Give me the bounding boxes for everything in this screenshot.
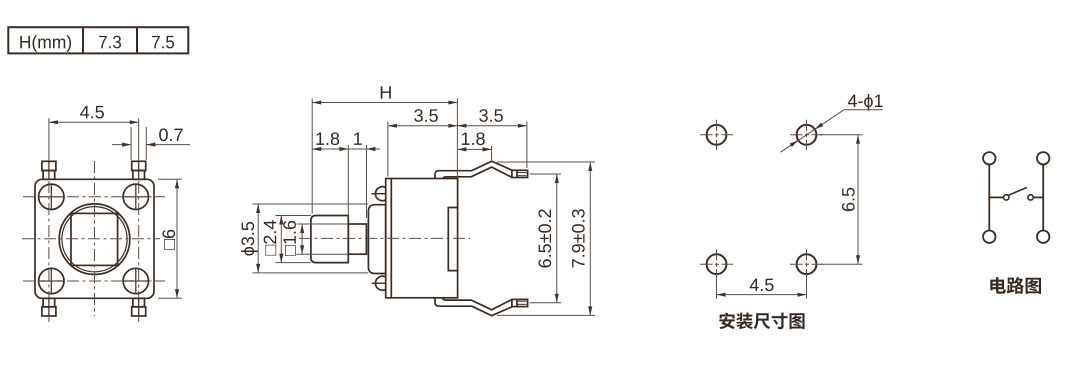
side view centerline — [299, 237, 470, 239]
corner contact circle (left bottom) — [39, 268, 64, 293]
mounting hole top-left (phi 1) — [700, 120, 733, 150]
dim square1.6 — [297, 223, 349, 225]
side view locating peg (top) — [375, 187, 385, 201]
top view center button — [59, 204, 130, 275]
wire right stub to contact — [1033, 196, 1043, 198]
side view button — [311, 216, 348, 263]
dim 3.5 right — [526, 122, 528, 168]
caption anzhuang chicun tu — [719, 313, 734, 330]
dim 3.5 left — [387, 122, 389, 177]
side view top lead — [435, 161, 528, 178]
dim 0.7 top view — [130, 127, 132, 160]
mounting hole bottom-right (phi 1) — [790, 249, 823, 279]
top view body — [35, 179, 154, 298]
switch S1 lever (normally open) — [1008, 188, 1027, 196]
mounting hole bottom-left (phi 1) — [700, 249, 733, 279]
corner contact circle (right bottom) — [123, 268, 148, 293]
terminal 2 (bottom-left) — [983, 231, 995, 243]
mounting hole top-right (phi 1) — [790, 120, 823, 150]
dim phi3.5 — [253, 203, 369, 205]
switch S1 fixed contact right — [1028, 195, 1033, 200]
terminal 1 (top-left) — [983, 152, 995, 164]
side view bottom lead — [435, 298, 528, 315]
dim 1.8 middle — [491, 146, 493, 160]
dim 6.5 mounting — [820, 134, 863, 136]
dim 6.5pm0.2 — [530, 173, 561, 175]
wire left stub to contact — [989, 196, 1003, 198]
corner contact circle (right top) — [123, 184, 148, 209]
lead pin 4 (bottom-right) — [132, 298, 146, 316]
dim square6 top view — [158, 178, 182, 180]
lead pin 3 (bottom-left) — [42, 298, 56, 316]
side view locating peg (bottom) — [375, 276, 385, 290]
dim 4.5 top view — [48, 118, 50, 161]
wire right vertical — [1042, 165, 1044, 231]
lead pin 1 (top-left) — [42, 161, 56, 179]
dim 7.9pm0.3 — [497, 161, 595, 163]
label 4-phi1 — [848, 94, 883, 111]
corner contact circle (left top) — [39, 184, 64, 209]
terminal 3 (top-right) — [1037, 152, 1049, 164]
table H(mm) — [8, 27, 188, 53]
wire left vertical — [988, 165, 990, 231]
side view body — [386, 179, 458, 298]
side view stem — [348, 224, 366, 254]
side view bezel — [368, 205, 385, 274]
dim H — [311, 99, 313, 214]
terminal 4 (bottom-right) — [1037, 231, 1049, 243]
dim 1.8 left — [347, 145, 349, 218]
side view right recess — [448, 208, 457, 271]
caption dianlutu — [990, 277, 1006, 294]
switch S1 fixed contact left — [1004, 195, 1009, 200]
lead pin 2 (top-right) — [132, 161, 146, 179]
top view centerlines — [22, 238, 160, 240]
dim square2.4 — [276, 215, 311, 217]
dim 4.5 mounting — [716, 277, 718, 299]
